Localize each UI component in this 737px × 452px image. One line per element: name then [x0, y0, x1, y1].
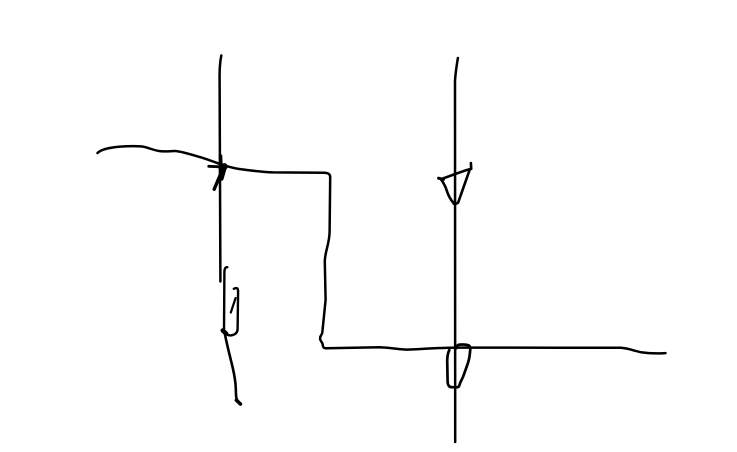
- wire: right vertical branch: [455, 58, 458, 442]
- component L1: small loop on left branch: [223, 267, 238, 335]
- wire: left vertical branch: [220, 56, 222, 282]
- junction arrowhead scribble: [209, 156, 226, 189]
- wire: bottom rail: [323, 345, 666, 354]
- resistor R1 box on bottom rail: [447, 345, 470, 388]
- junction blob: [223, 331, 226, 334]
- wire: junction to top corner: [222, 165, 331, 177]
- wire end hook: [236, 400, 240, 404]
- diode D1 triangle on right branch: [439, 163, 472, 204]
- wire: input lead from top-left to junction: [98, 146, 222, 164]
- wire: middle vertical drop: [320, 177, 330, 345]
- wire: diagonal lead down from L1: [225, 334, 240, 404]
